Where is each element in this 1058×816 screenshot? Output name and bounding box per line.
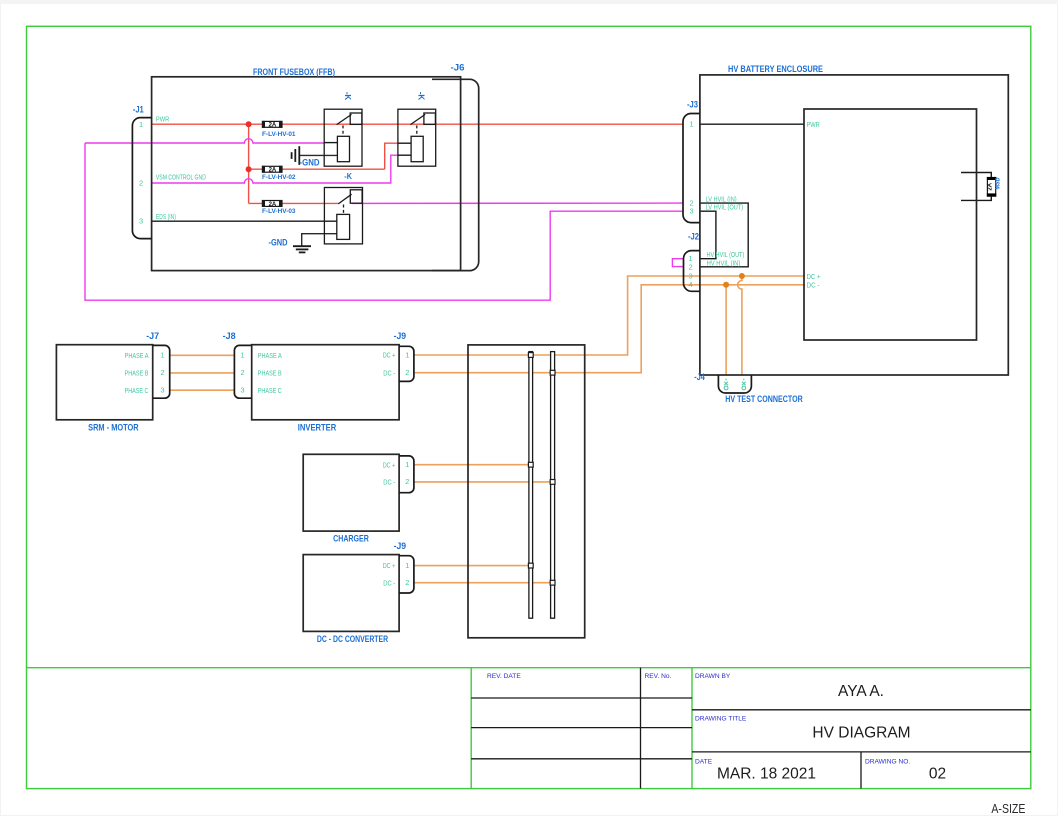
svg-text:PWR: PWR	[807, 120, 820, 129]
svg-text:PHASE A: PHASE A	[258, 351, 282, 360]
svg-text:1: 1	[690, 120, 694, 129]
svg-text:HV DIAGRAM: HV DIAGRAM	[812, 725, 910, 742]
svg-text:-J6: -J6	[451, 63, 465, 73]
svg-text:A-SIZE: A-SIZE	[991, 802, 1025, 816]
svg-text:2: 2	[405, 578, 409, 587]
svg-text:PHASE A: PHASE A	[125, 351, 149, 360]
svg-text:-K: -K	[416, 92, 425, 101]
svg-text:DATE: DATE	[695, 759, 713, 766]
svg-text:REV. DATE: REV. DATE	[487, 673, 521, 680]
svg-text:FRONT FUSEBOX (FFB): FRONT FUSEBOX (FFB)	[253, 67, 335, 77]
svg-text:-K: -K	[343, 92, 352, 101]
svg-text:AYA A.: AYA A.	[838, 683, 884, 700]
svg-text:DC -: DC -	[383, 578, 395, 587]
svg-text:DC -: DC -	[383, 478, 395, 487]
svg-text:-J4: -J4	[694, 372, 705, 382]
svg-text:PHASE C: PHASE C	[125, 386, 149, 395]
svg-text:F-LV-HV-01: F-LV-HV-01	[262, 131, 296, 138]
svg-text:VSM CONTROL GND: VSM CONTROL GND	[156, 172, 206, 181]
svg-text:-J9: -J9	[394, 331, 407, 341]
svg-text:DRAWING TITLE: DRAWING TITLE	[695, 716, 747, 723]
svg-text:PHASE C: PHASE C	[258, 386, 282, 395]
svg-text:HV BATTERY ENCLOSURE: HV BATTERY ENCLOSURE	[728, 64, 823, 74]
svg-text:-GND: -GND	[269, 237, 288, 247]
svg-text:SRM - MOTOR: SRM - MOTOR	[88, 423, 139, 433]
svg-text:DC +: DC +	[807, 272, 821, 281]
svg-text:F-LV-HV-03: F-LV-HV-03	[262, 208, 296, 215]
svg-text:2: 2	[405, 477, 409, 486]
svg-text:3: 3	[690, 207, 694, 216]
svg-text:1: 1	[161, 351, 165, 360]
svg-text:EDS (IN): EDS (IN)	[156, 212, 176, 221]
svg-text:-J7: -J7	[146, 331, 159, 341]
svg-text:1: 1	[405, 460, 409, 469]
svg-text:-J3: -J3	[687, 100, 698, 110]
svg-text:2A: 2A	[988, 182, 994, 190]
svg-text:4: 4	[689, 280, 693, 289]
svg-text:2: 2	[689, 262, 693, 271]
svg-text:3: 3	[689, 271, 693, 280]
svg-text:2: 2	[241, 368, 245, 377]
svg-text:1: 1	[241, 351, 245, 360]
svg-text:PHASE B: PHASE B	[258, 369, 282, 378]
svg-text:MSD: MSD	[996, 177, 1002, 190]
svg-text:3: 3	[241, 386, 245, 395]
svg-text:2: 2	[139, 178, 143, 187]
svg-text:1: 1	[405, 561, 409, 570]
svg-text:1: 1	[405, 350, 409, 359]
svg-text:DC +: DC +	[383, 351, 396, 360]
svg-text:DC -: DC -	[383, 368, 395, 377]
svg-text:DC -: DC -	[807, 281, 821, 290]
svg-text:LV HVIL (OUT): LV HVIL (OUT)	[706, 202, 744, 211]
svg-text:3: 3	[161, 386, 165, 395]
svg-text:HV TEST CONNECTOR: HV TEST CONNECTOR	[725, 394, 803, 404]
svg-text:DC - DC CONVERTER: DC - DC CONVERTER	[317, 634, 388, 644]
svg-text:2A: 2A	[269, 123, 277, 129]
svg-text:F-LV-HV-02: F-LV-HV-02	[262, 174, 296, 181]
svg-text:2A: 2A	[269, 202, 277, 208]
svg-text:02: 02	[929, 766, 946, 783]
svg-text:REV. No.: REV. No.	[645, 673, 672, 680]
svg-text:-J2: -J2	[688, 232, 699, 242]
svg-text:PHASE B: PHASE B	[125, 369, 149, 378]
svg-text:DRAWING NO.: DRAWING NO.	[865, 759, 910, 766]
svg-text:-J8: -J8	[223, 331, 236, 341]
svg-text:-J1: -J1	[133, 105, 144, 115]
svg-text:1: 1	[139, 120, 143, 129]
svg-text:-GND: -GND	[300, 157, 320, 167]
svg-text:DC +: DC +	[383, 561, 396, 570]
svg-text:PWR: PWR	[156, 114, 169, 123]
svg-text:2: 2	[161, 368, 165, 377]
svg-text:MAR. 18 2021: MAR. 18 2021	[717, 766, 816, 783]
svg-text:2: 2	[405, 368, 409, 377]
svg-text:DRAWN BY: DRAWN BY	[695, 673, 731, 680]
svg-text:-K: -K	[344, 172, 352, 181]
svg-text:-J9: -J9	[394, 541, 407, 551]
svg-text:3: 3	[139, 216, 143, 225]
svg-text:HV HVIL (IN): HV HVIL (IN)	[707, 258, 741, 267]
svg-text:INVERTER: INVERTER	[298, 423, 337, 433]
svg-text:DC +: DC +	[383, 460, 396, 469]
svg-text:CHARGER: CHARGER	[333, 533, 369, 543]
svg-text:2A: 2A	[269, 168, 277, 174]
